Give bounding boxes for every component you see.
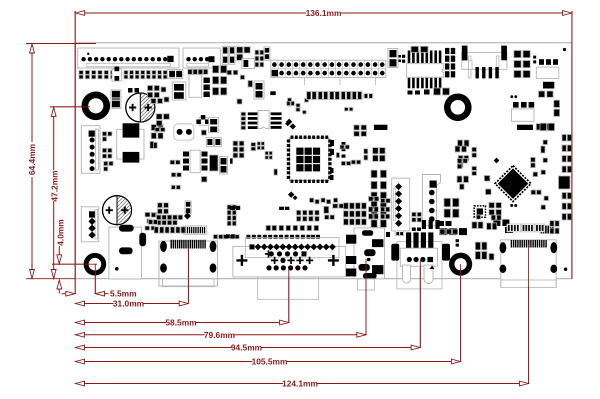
2x3 block right: [213, 66, 219, 74]
fiducial dot top-right: [563, 48, 566, 51]
pad at header left end: [270, 91, 275, 95]
capacitor pair right of U3 bottom: [434, 88, 441, 95]
two outlined parts: [206, 138, 213, 147]
small part right: [201, 177, 207, 183]
vertical outline part left of header: [254, 81, 264, 99]
column of pad pairs right of U1: [371, 170, 377, 178]
black rect below white box: [543, 82, 554, 89]
passive cluster middle 1: [354, 125, 360, 130]
VGA screw posts: [236, 255, 247, 266]
USB contact dots: [407, 257, 412, 262]
connector CN4 left tab: [462, 46, 468, 61]
right edge pad pairs column: [562, 135, 566, 142]
svg-text:79.6mm: 79.6mm: [204, 330, 235, 340]
extension line top-left for 64.4mm: [26, 43, 96, 45]
USB pin bars: [406, 232, 411, 249]
pads column right of IC box: [204, 78, 210, 84]
extension line bottom-left hole center vertical: [94, 264, 96, 294]
pads column left of power IC: [102, 132, 106, 136]
three pads row top-right: [539, 59, 544, 65]
2x2 grid right of CN8: [412, 212, 416, 216]
extension line bottom-left for 64.4mm: [26, 278, 75, 280]
pin header J1 tick marks: [304, 78, 306, 86]
extension line from top-left hole for 47.2mm: [50, 106, 90, 108]
cluster above HDMI1 2x2 grid: [158, 203, 163, 208]
two-dot part below: [274, 169, 278, 175]
right squares above audio: [369, 197, 374, 202]
HDMI2 corner pads: [500, 242, 507, 253]
dimension 136.1mm top line: [75, 12, 306, 14]
VGA pin row 2: [269, 251, 274, 256]
small square above SOIC U5: [237, 99, 242, 104]
2x3 grid left of header: [255, 50, 259, 55]
right column pairs near edge x457: [458, 140, 463, 147]
big pad right of U4: [210, 155, 219, 171]
pads left of HDMI2: [475, 242, 480, 250]
small 2-dot part: [533, 56, 536, 59]
cluster below diamond U2: [444, 198, 451, 207]
extension line right edge: [571, 11, 573, 279]
small diamond part above HDMI1: [184, 212, 191, 219]
left small parts near U1: [330, 140, 334, 146]
big pads row bottom middle: [439, 228, 447, 235]
IC U1 QFP body: [287, 136, 332, 184]
extension drop line x=366.0: [365, 259, 367, 335]
connector CN7 4-pin: [81, 207, 98, 242]
VGA overhang outline: [258, 277, 319, 299]
extension drop line x=288.8: [288, 268, 290, 323]
extension line right edge overlay: [571, 11, 573, 279]
two-pad part left of U3: [388, 49, 398, 68]
QFN small IC below U2: [474, 206, 485, 217]
drop line 94.5mm overlay: [419, 260, 421, 348]
stacked pads right column: [554, 100, 560, 107]
IC U5 right pins: [271, 112, 282, 115]
HDMI1 corner pads: [160, 241, 167, 252]
dimension 124.1mm: [75, 383, 283, 385]
passive cluster middle 2: [340, 145, 344, 149]
tall part at board top right of U3: [463, 49, 468, 61]
striped parts row above HDMI2: [507, 224, 521, 232]
dimension 5.5mm: [62, 293, 67, 295]
drop line 79.6mm overlay: [365, 259, 367, 335]
pads right of D1: [128, 88, 133, 93]
row of passives under CN1 right group: [124, 71, 128, 75]
fiducial dot bottom-right: [564, 268, 567, 271]
pair left above VGA: [226, 234, 230, 238]
tiny diamond upper-left of U2: [494, 158, 500, 164]
row of four pads below CN2: [188, 69, 192, 74]
row of passives under CN1 left group: [79, 71, 83, 75]
small pads far left of U3: [399, 55, 402, 58]
svg-text:94.5mm: 94.5mm: [231, 343, 262, 353]
left edge square: [151, 213, 155, 217]
pads right of small QFN: [489, 203, 495, 209]
resistor array right of U3: [445, 48, 449, 54]
2x2 square cluster left of header: [237, 47, 243, 53]
connector CN4 teeth: [476, 67, 479, 78]
svg-text:124.1mm: 124.1mm: [282, 379, 318, 389]
left 2-row grid above VGA-right: [297, 210, 301, 215]
dimension 64.4mm vertical line: [31, 44, 33, 142]
VGA inner outline: [245, 237, 339, 257]
VGA pin row 4: [266, 265, 271, 270]
connector HDMI1 outline: [159, 241, 218, 286]
PCB board outline: [75, 43, 572, 279]
pair below header left: [345, 108, 349, 111]
black shapes below U2: [493, 220, 500, 227]
pads below U3: [408, 91, 413, 95]
big square right edge: [559, 176, 571, 189]
cross-shaped part: [112, 69, 122, 81]
IC U3 top pins: [408, 51, 411, 64]
USB through-hole legs: [403, 265, 411, 283]
white box top-right: [536, 67, 559, 78]
cluster left of cap C1 under: [156, 114, 162, 120]
HDMI1 pin stripes: [171, 240, 172, 249]
mounting hole top-left: [82, 92, 111, 121]
connector CN1 inner slot: [87, 63, 171, 67]
drop line bottom-left hole overlay: [94, 264, 96, 294]
connector CN1 pin dots: [81, 57, 85, 61]
two vertical pad stacks above VGA: [227, 205, 231, 210]
svg-text:64.4mm: 64.4mm: [27, 144, 37, 175]
VGA pin row 1: [250, 244, 255, 249]
connector HDMI2 outline: [501, 240, 556, 287]
vertical 2-pad parts right of CN2: [222, 46, 228, 64]
IC U3 bottom pins: [408, 78, 411, 89]
capacitor grid top-right 2x3: [514, 51, 521, 58]
dimension 79.6mm: [75, 334, 204, 336]
dimension 31.0mm: [75, 303, 113, 305]
tiny diamond: [285, 121, 290, 126]
HDMI2 pin stripes: [511, 240, 512, 248]
2x2 big squares middle: [373, 148, 379, 154]
pin header J1 cell grid: [277, 60, 279, 77]
rounded part with two dots: [174, 124, 194, 140]
connector CN2 pin dots: [186, 57, 190, 61]
IC U4 SOIC-8 mid-left: [190, 150, 200, 173]
left pads of right column: [540, 123, 547, 131]
pads right of barcode row: [213, 235, 217, 239]
connector CN2 inner slot: [187, 63, 209, 67]
extension line through bottom-left hole for 4.0mm: [52, 263, 97, 265]
capacitors above U3: [411, 46, 419, 52]
cross part above: [199, 118, 207, 126]
three outlined pads right: [440, 229, 445, 234]
white box small left of header: [242, 59, 255, 69]
HDMI2 overhang outline: [501, 280, 556, 288]
dimension 58.5mm: [75, 322, 166, 324]
black bars above USB: [422, 220, 426, 229]
connector CN4 legs: [468, 56, 471, 78]
HDMI1 overhang outline: [163, 279, 215, 287]
block cluster left of audio: [344, 203, 349, 209]
left edge pair: [149, 220, 153, 225]
VGA pin row 3: [271, 257, 278, 264]
audio jack pads and bars: [346, 235, 356, 244]
drop line 31.0mm overlay: [187, 248, 189, 304]
vertical 2-pad part: [209, 118, 219, 133]
pads below U4 left: [170, 160, 175, 164]
pin header J1 2x16 outline: [271, 60, 386, 77]
pad block above HDMI1: [157, 215, 162, 220]
dimension 47.2mm vertical line: [53, 107, 55, 170]
2x3 grid mid: [233, 141, 238, 146]
svg-text:4.0mm: 4.0mm: [55, 219, 65, 246]
svg-text:31.0mm: 31.0mm: [113, 299, 144, 309]
pads below 2x2 grid: [412, 228, 416, 231]
white box 2 top-right: [511, 109, 534, 121]
USB side pads: [391, 244, 399, 261]
dimension 4.0mm arrows: [58, 246, 60, 255]
vertical pair mid: [251, 143, 256, 147]
three pads row 2: [513, 102, 519, 108]
power IC with tabs: [117, 129, 144, 159]
extension line top-left hole overlay: [50, 106, 90, 108]
drop line 124.1mm overlay: [528, 244, 530, 384]
scatter right of U2: [531, 157, 536, 162]
scatter left of U2: [455, 146, 460, 152]
extension drop line x=528.6: [528, 244, 530, 384]
connector CN9 4-pin vertical: [423, 175, 441, 226]
resistor row below header: [307, 92, 317, 100]
barcode striped part above HDMI1: [184, 226, 207, 234]
pads bottom near CN8 left: [386, 232, 390, 237]
cluster above HDMI2: [472, 222, 477, 229]
bottom edge parts near 230,206: [230, 206, 235, 210]
striped part above right HDMI: [541, 226, 543, 234]
audio jack overhang: [357, 279, 374, 290]
audio jack outline: [354, 228, 385, 279]
dimension 94.5mm: [75, 347, 231, 349]
2-pad part adjacent to header: [264, 47, 270, 60]
IC U3 SOIC body: [407, 64, 444, 77]
two caps below: [539, 91, 545, 97]
pair above: [287, 101, 290, 105]
connector CN1 30-pin header outline: [78, 48, 179, 68]
outlined part right of U4: [220, 157, 228, 175]
extension line bottom-left hole overlay: [52, 263, 97, 265]
2x2 grid mid: [257, 142, 260, 145]
extension drop line x=420.3: [419, 260, 421, 348]
diode stack D1: [111, 90, 121, 109]
black rects below box2: [517, 125, 533, 130]
vertical 2-pad part above HDMI1: [185, 201, 191, 214]
extension drop line x=460.6: [460, 264, 462, 362]
connector CN4 right tab: [501, 46, 507, 61]
outlined capacitor pair right of rows: [167, 69, 183, 78]
IC U5 left pins: [248, 112, 258, 115]
svg-text:136.1mm: 136.1mm: [306, 8, 342, 18]
two-pad outlined part D2: [172, 82, 186, 100]
scatter below header J1: [288, 98, 292, 102]
row of pads above VGA: [246, 235, 250, 239]
connector VGA outer outline: [233, 246, 346, 277]
small diamond below U1: [288, 191, 295, 198]
two pads small: [456, 239, 459, 242]
small striped part end of row: [364, 94, 373, 99]
electrolytic capacitor C2: [103, 196, 132, 225]
connector CN4 FPC body: [462, 52, 507, 69]
svg-text:58.5mm: 58.5mm: [165, 318, 196, 328]
SOT23 pair right of power IC: [151, 125, 156, 131]
extension drop line x=188.4: [187, 248, 189, 304]
drop line 58.5mm overlay: [288, 268, 290, 323]
pad pairs left of barcode: [154, 227, 158, 233]
svg-text:5.5mm: 5.5mm: [110, 289, 137, 299]
extension line left edge overlay: [74, 11, 76, 294]
two dots: [510, 95, 513, 98]
connector CN2 outline: [183, 48, 220, 68]
top row cluster above audio: [310, 198, 314, 202]
white IC box: [189, 75, 202, 98]
pairs below cluster: [227, 70, 232, 75]
IC U5 left pad column: [241, 112, 246, 116]
black rect top middle: [374, 125, 388, 130]
pads right of module: [145, 212, 150, 217]
inductor module L1: [109, 227, 142, 279]
connector CN6 5-pin power: [81, 126, 100, 174]
row of parts top of VGA zone: [266, 225, 271, 230]
diamond pair below ribbon: [286, 119, 292, 125]
connector CN8 6-pin vertical: [392, 178, 410, 231]
2x2 cluster right above HDMI2: [550, 221, 554, 227]
bottom edge parts near 280,207: [279, 207, 284, 210]
small part below: [201, 130, 206, 135]
left edge pair near QFP: [230, 158, 233, 163]
tiny parts right of U1: [342, 142, 346, 145]
IC U2 rotated QFN: [495, 166, 531, 202]
small parts cluster below CN1-mid: [148, 86, 153, 91]
svg-text:47.2mm: 47.2mm: [50, 170, 60, 201]
extension line left edge: [74, 11, 76, 294]
pair column mid: [324, 206, 329, 213]
electrolytic capacitor C1: [126, 93, 155, 122]
dimension 105.5mm: [75, 361, 252, 363]
svg-text:105.5mm: 105.5mm: [252, 357, 288, 367]
mounting hole bottom-left: [84, 253, 107, 276]
mounting hole bottom-right: [449, 253, 472, 276]
drop line 105.5mm overlay: [460, 264, 462, 362]
USB body: [400, 248, 437, 266]
IC U5 body: [258, 111, 269, 129]
pin header J1 pins: [272, 62, 277, 67]
tab below CN8: [395, 231, 403, 236]
mounting hole top-right: [444, 94, 472, 122]
2x2 small mid: [265, 151, 268, 154]
connector USB outline overhang: [397, 241, 442, 289]
IC U3 left pads: [402, 55, 405, 58]
